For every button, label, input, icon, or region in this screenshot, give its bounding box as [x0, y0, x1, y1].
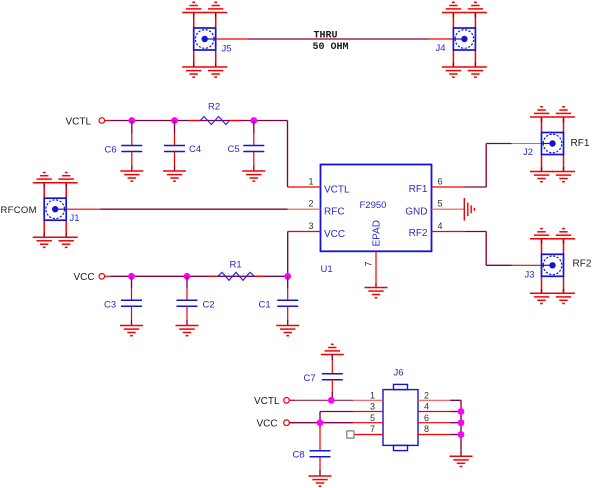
capacitor C3: [121, 276, 142, 325]
svg-text:C6: C6: [105, 145, 117, 156]
capacitor C8: [310, 423, 331, 476]
svg-text:C5: C5: [228, 144, 240, 155]
svg-text:3: 3: [370, 402, 375, 412]
wire RF2 net horizontal from pin 4: [464, 231, 486, 233]
connector J4: [442, 2, 487, 77]
capacitor C5: [243, 121, 264, 172]
wire pin 4 to bus: [450, 411, 461, 413]
svg-text:RFCOM: RFCOM: [1, 205, 37, 216]
svg-text:VCC: VCC: [324, 229, 345, 240]
wire VCC vertical to pin 3: [287, 232, 289, 277]
junction at C6: [128, 117, 135, 124]
svg-text:2: 2: [308, 199, 313, 209]
svg-text:5: 5: [370, 413, 375, 423]
junction at C3: [128, 273, 135, 280]
wire RF2 net to J3: [486, 264, 511, 266]
capacitor C6: [121, 121, 142, 172]
svg-text:RF1: RF1: [571, 138, 590, 149]
pin 3 VCC stub: [288, 231, 321, 233]
svg-text:7: 7: [364, 261, 374, 266]
svg-text:C8: C8: [293, 449, 305, 460]
svg-text:5: 5: [438, 199, 443, 209]
op-amp U1 body: [321, 165, 432, 252]
ground at EPAD: [365, 288, 388, 298]
wire J2 pin stub: [512, 143, 542, 145]
resistor R1: [209, 272, 265, 280]
port VCTL terminal: [99, 118, 110, 124]
connector J2: [530, 107, 575, 182]
svg-text:RF2: RF2: [409, 228, 428, 239]
svg-text:4: 4: [424, 402, 429, 412]
pin 5 stub J6: [353, 422, 383, 424]
svg-text:RF1: RF1: [409, 184, 428, 195]
svg-text:1: 1: [370, 390, 375, 400]
connector J5: [182, 2, 227, 77]
pin 2 RFC stub: [288, 208, 321, 210]
wire RF1 net vertical: [485, 144, 487, 188]
capacitor C2: [177, 276, 198, 325]
pin 1 VCTL stub: [288, 186, 321, 188]
port VCTL bottom terminal: [284, 398, 295, 404]
pin 4 stub J6: [418, 411, 450, 413]
ground below C4: [163, 171, 186, 181]
wire RF1 net to J2: [486, 143, 511, 145]
svg-text:3: 3: [308, 221, 313, 231]
svg-text:THRU: THRU: [314, 30, 338, 41]
wire RFC net: [100, 208, 287, 210]
wire pin 8 to bus: [450, 434, 461, 436]
header J6 body: [383, 384, 418, 450]
ground below C1: [276, 326, 299, 336]
junction bus pin 4: [458, 408, 465, 415]
svg-text:GND: GND: [405, 207, 427, 218]
svg-text:C3: C3: [104, 299, 116, 310]
ground at pin 5 (right-pointing): [464, 198, 474, 221]
svg-text:6: 6: [438, 176, 443, 186]
svg-text:RF2: RF2: [573, 259, 592, 270]
svg-text:VCTL: VCTL: [324, 184, 350, 195]
svg-text:J2: J2: [523, 147, 533, 158]
capacitor C1: [277, 276, 298, 325]
ground below C2: [176, 326, 199, 336]
svg-text:J6: J6: [394, 367, 404, 378]
pin 8 stub J6: [418, 434, 450, 436]
ground below C6: [120, 171, 143, 181]
port VCC bottom terminal: [284, 420, 295, 426]
svg-text:VCC: VCC: [74, 272, 95, 283]
svg-text:J5: J5: [222, 44, 232, 55]
svg-text:C2: C2: [203, 300, 215, 311]
ground below C5: [242, 171, 265, 181]
junction at C4: [171, 117, 178, 124]
inverted ground above C7: [321, 344, 344, 354]
svg-text:VCC: VCC: [257, 418, 278, 429]
junction at C1: [284, 273, 291, 280]
svg-text:2: 2: [424, 390, 429, 400]
svg-text:VCTL: VCTL: [254, 396, 280, 407]
ground below J6 bus: [450, 456, 473, 466]
wire J3 pin stub: [512, 264, 542, 266]
wire ground bus vertical: [460, 400, 462, 456]
resistor R2: [189, 117, 241, 125]
pin 7 EPAD wire stub: [375, 283, 377, 288]
connector J3: [530, 229, 575, 304]
svg-text:C4: C4: [189, 144, 201, 155]
svg-text:J1: J1: [70, 213, 80, 224]
svg-text:RFC: RFC: [324, 207, 345, 218]
wire RF2 net vertical: [485, 232, 487, 266]
wire VCC branch vertical: [319, 412, 321, 423]
wire pin 6 to bus: [450, 422, 461, 424]
pin 4 RF2 stub: [432, 231, 465, 233]
svg-text:8: 8: [424, 424, 429, 434]
svg-text:C1: C1: [259, 300, 271, 311]
pin 7 stub J6: [353, 434, 383, 436]
junction below C7: [328, 397, 335, 404]
junction at C2: [184, 273, 191, 280]
capacitor C4: [164, 121, 185, 172]
svg-text:EPAD: EPAD: [371, 220, 382, 247]
svg-text:F2950: F2950: [360, 200, 387, 211]
wire pin 2 to bus: [450, 399, 461, 401]
pin 7 EPAD stub: [375, 251, 377, 283]
pin 3 stub J6: [353, 411, 383, 413]
connector J1: [33, 173, 78, 248]
svg-text:C7: C7: [304, 373, 316, 384]
capacitor C7: [322, 355, 343, 401]
svg-text:1: 1: [308, 176, 313, 186]
wire VCTL net: [110, 120, 287, 122]
wire J5 pin stub: [216, 38, 249, 40]
junction at C5: [250, 117, 257, 124]
wire VCTL vertical to pin 1: [287, 121, 289, 188]
wire VCC to J6 pin 5: [289, 422, 353, 424]
svg-text:50 OHM: 50 OHM: [313, 42, 349, 53]
no-connect square at pin 7: [347, 431, 354, 438]
wire VCTL to J6 pin 1: [289, 399, 353, 401]
pin 5 GND stub: [432, 208, 465, 210]
junction bus pin 8: [458, 431, 465, 438]
svg-text:7: 7: [370, 424, 375, 434]
svg-text:J4: J4: [436, 43, 446, 54]
port VCC terminal: [99, 274, 110, 280]
ground below C3: [120, 326, 143, 336]
wire J4 pin stub: [428, 38, 453, 40]
svg-text:4: 4: [438, 221, 443, 231]
wire RF1 net horizontal from pin 6: [464, 186, 486, 188]
pin 6 stub J6: [418, 422, 450, 424]
svg-text:J3: J3: [525, 270, 535, 281]
pin 6 RF1 stub: [432, 186, 465, 188]
junction bus pin 6: [458, 419, 465, 426]
svg-text:U1: U1: [321, 264, 333, 275]
junction at VCC branch: [317, 419, 324, 426]
wire VCC branch to J6 pin 3: [320, 411, 353, 413]
wire net THRU: [249, 38, 429, 40]
svg-text:R1: R1: [230, 260, 242, 271]
svg-text:R2: R2: [208, 102, 220, 113]
svg-text:6: 6: [424, 413, 429, 423]
wire J1 pin stub: [66, 208, 100, 210]
pin 2 stub J6: [418, 399, 450, 401]
pin 1 stub J6: [353, 399, 383, 401]
ground below C8: [309, 476, 332, 486]
svg-text:VCTL: VCTL: [66, 116, 92, 127]
wire VCC net: [110, 275, 287, 277]
